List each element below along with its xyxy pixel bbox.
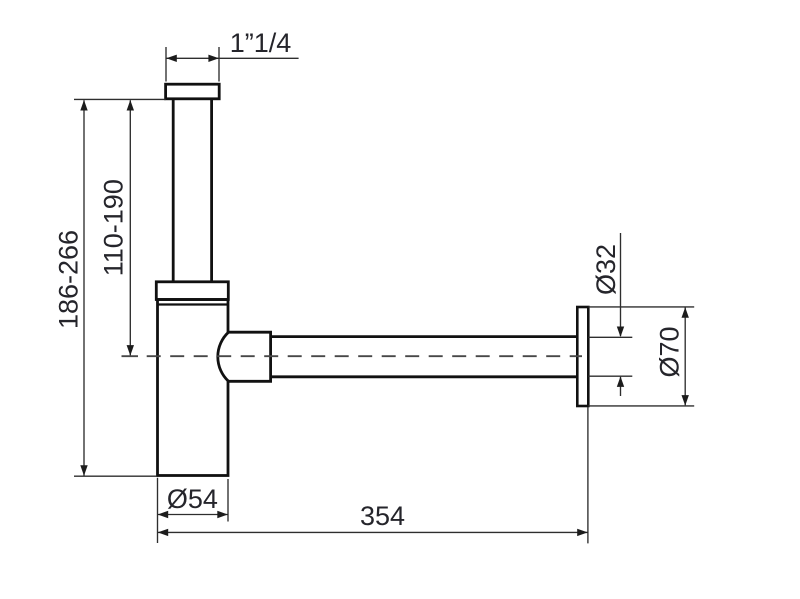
label 354 xyxy=(360,501,405,531)
O70 ext bottom xyxy=(588,405,694,407)
label 110-190 xyxy=(99,179,129,276)
inlet pipe xyxy=(173,99,211,282)
O32 upper leader xyxy=(617,233,624,337)
body seam line xyxy=(158,303,229,305)
dim O54 line xyxy=(158,511,229,518)
centerline dashed xyxy=(147,355,582,357)
top nut cap xyxy=(166,84,220,99)
outlet nut xyxy=(218,332,271,381)
O32 ext bottom xyxy=(588,375,632,377)
dim 1"1/4 line with leader xyxy=(166,55,298,62)
trap body xyxy=(158,300,229,476)
ext line body left xyxy=(157,478,159,543)
body top flange xyxy=(156,282,228,300)
centerline tick at arrow xyxy=(122,355,139,357)
label O70 xyxy=(654,326,684,377)
O70 ext top xyxy=(588,306,694,308)
svg-text:186-266: 186-266 xyxy=(53,230,83,329)
ext line body right xyxy=(227,479,229,522)
O32 lower leader xyxy=(617,376,624,396)
svg-text:Ø32: Ø32 xyxy=(591,244,621,295)
svg-text:1”1/4: 1”1/4 xyxy=(230,28,292,58)
dim 1"1/4 extension lines xyxy=(166,47,219,82)
dim O70 line xyxy=(682,307,689,405)
label 186-266 xyxy=(53,230,83,329)
label O54 xyxy=(167,484,218,514)
dim 110-190 line xyxy=(127,100,134,356)
dim 186-266 line xyxy=(80,100,87,476)
svg-text:Ø54: Ø54 xyxy=(167,484,218,514)
outlet pipe xyxy=(271,337,578,377)
ext line wall flange xyxy=(587,407,589,543)
O32 ext top xyxy=(588,336,632,338)
bottom-left reference line xyxy=(74,475,156,477)
wall flange xyxy=(577,307,588,406)
label 1"1/4 xyxy=(230,28,292,58)
dim 354 line xyxy=(158,529,588,536)
svg-text:110-190: 110-190 xyxy=(99,179,129,276)
svg-text:Ø70: Ø70 xyxy=(654,326,684,377)
top reference line xyxy=(74,98,166,100)
svg-text:354: 354 xyxy=(360,501,405,531)
label O32 xyxy=(591,244,621,295)
